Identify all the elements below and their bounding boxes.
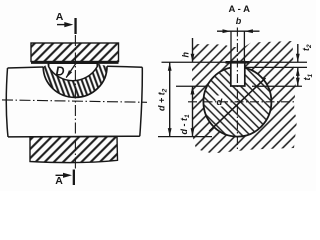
shaft cross-section circle [203, 67, 271, 137]
svg-text:h: h [181, 52, 191, 58]
slot bottom left extension line [176, 85, 206, 87]
section plane vertical centerline [74, 35, 76, 170]
wire shaft top edge right segment [107, 66, 142, 67]
svg-text:D: D [56, 65, 65, 79]
dimension d-t1 line [192, 86, 194, 137]
svg-text:A - A: A - A [229, 4, 251, 15]
woodruff key (white segment) [49, 63, 98, 80]
section mark bottom tick [73, 170, 75, 186]
shaft body outline [6, 67, 142, 137]
diameter line for d [209, 78, 265, 131]
hub keyway groove bottom line (thick) [31, 61, 119, 64]
label d halo [216, 96, 225, 107]
svg-text:A: A [56, 11, 64, 23]
shaft horizontal centerline [2, 100, 147, 102]
keyway local-section crescent (hatched shaft material) [43, 63, 107, 97]
hub lower section block [30, 136, 118, 162]
dimension h line [192, 38, 194, 62]
svg-text:d + t2: d + t2 [156, 88, 168, 111]
circle bottom extension line [158, 136, 212, 138]
hub section (hatched field) [192, 41, 297, 154]
wire local section boundary arc [43, 66, 107, 97]
section mark top tick [74, 18, 76, 34]
key / keyway in section (white rect) [231, 62, 245, 86]
dimension t2 / t1 vertical line [297, 44, 299, 62]
svg-text:t2: t2 [301, 44, 313, 51]
wire shaft right edge [140, 67, 143, 136]
wire shaft top edge left segment [8, 67, 44, 68]
wire shaft left edge [6, 68, 8, 137]
section mark top arrow [57, 24, 68, 26]
dimension b extension lines [230, 31, 232, 62]
section mark bottom arrow [56, 174, 67, 176]
dimension d+t2 line [169, 62, 171, 136]
svg-text:A: A [55, 175, 63, 187]
svg-text:d: d [217, 97, 223, 108]
svg-text:b: b [236, 16, 242, 26]
keyway groove top line thick part [226, 61, 250, 64]
dimension b line [217, 30, 260, 32]
label D leader [66, 63, 76, 78]
key protrusion end ticks [48, 63, 50, 67]
svg-text:t1: t1 [302, 74, 314, 81]
centerline vertical of section [236, 28, 238, 150]
slot bottom right extension line [252, 85, 302, 87]
svg-text:d - t1: d - t1 [179, 114, 191, 135]
hub upper section block [31, 43, 119, 62]
wire shaft bottom edge [8, 135, 140, 138]
keyway groove top line thin extension [162, 61, 308, 63]
centerline horizontal of section [188, 101, 296, 103]
bore top extension line [245, 66, 307, 68]
